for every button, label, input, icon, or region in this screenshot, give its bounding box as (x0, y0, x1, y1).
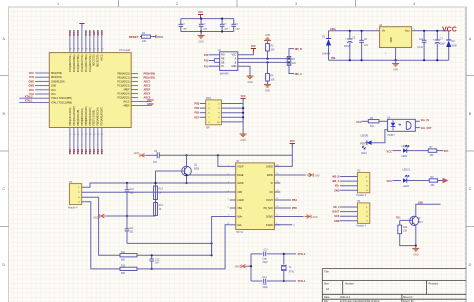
wire Q1 to U5 BASE (187, 174, 230, 176)
svg-text:ADC7(TDI): ADC7(TDI) (93, 54, 96, 66)
svg-text:XTAL1: XTAL1 (25, 100, 33, 103)
svg-text:GND: GND (265, 91, 270, 93)
SW1 left wires and labels (200, 103, 206, 105)
svg-text:25: 25 (81, 49, 83, 51)
svg-text:A: A (3, 37, 6, 41)
svg-text:P20: P20 (360, 144, 365, 146)
header P4 (358, 203, 370, 224)
capacitor C3 (221, 19, 223, 25)
IC U5 pins and labels (230, 165, 236, 167)
svg-text:PD3(INT1): PD3(INT1) (51, 77, 62, 79)
wire (365, 142, 367, 144)
svg-text:SCK: SCK (334, 215, 339, 218)
svg-text:GND: GND (393, 69, 399, 72)
svg-text:GND: GND (28, 85, 34, 88)
svg-text:XTAL1: XTAL1 (298, 280, 306, 283)
svg-text:GND: GND (334, 189, 340, 192)
svg-text:B: B (3, 112, 6, 116)
svg-text:8550: 8550 (194, 169, 200, 171)
svg-text:AREF: AREF (123, 105, 130, 108)
svg-text:VIN-: VIN- (331, 56, 336, 60)
header P1 (69, 184, 81, 205)
svg-text:XO: XO (269, 192, 273, 194)
svg-text:LED1: LED1 (361, 153, 367, 155)
MCU bottom pins (69, 128, 71, 155)
svg-text:PC3(ADC3/TMS): PC3(ADC3/TMS) (77, 54, 80, 72)
capacitor C5 (349, 31, 351, 39)
svg-text:INA-: INA- (237, 224, 242, 227)
svg-text:GND: GND (315, 176, 320, 178)
svg-text:DE: DE (221, 62, 225, 64)
svg-text:13: 13 (85, 134, 87, 136)
net label 485_A (289, 62, 294, 73)
svg-text:PB3(MOSI/OC2): PB3(MOSI/OC2) (82, 108, 84, 125)
svg-text:DOUT: DOUT (266, 200, 273, 202)
svg-text:AREF: AREF (147, 103, 154, 106)
LED D5 (403, 178, 407, 182)
VCC port (155, 35, 157, 38)
svg-text:ISP: ISP (206, 127, 210, 129)
svg-text:PC4: PC4 (72, 30, 76, 36)
svg-text:0.1uF: 0.1uF (417, 47, 423, 49)
svg-text:PC0: PC0 (88, 30, 92, 36)
svg-text:LED(G): LED(G) (402, 146, 410, 148)
SW1 right wires (221, 103, 243, 105)
svg-text:VCC: VCC (231, 55, 236, 57)
svg-text:VCC: VCC (442, 27, 457, 34)
wire (407, 180, 430, 182)
svg-text:PB4(MISO/PCINT): PB4(MISO/PCINT) (86, 106, 88, 126)
U4 cathode wire (372, 130, 388, 143)
resistor R2 pullup (267, 41, 269, 44)
svg-text:P30: P30 (204, 55, 209, 57)
svg-text:AREF: AREF (123, 89, 130, 92)
junction dots Q1 (185, 174, 187, 176)
wire P1 pin1 (82, 183, 230, 187)
svg-text:PD_SCK: PD_SCK (264, 208, 274, 210)
svg-text:VAL_IN: VAL_IN (421, 119, 430, 122)
net label PB4 (274, 199, 291, 201)
svg-text:PC5(ADC5/SCL): PC5(ADC5/SCL) (69, 54, 72, 71)
wire (393, 150, 402, 152)
svg-text:RO: RO (221, 55, 225, 57)
svg-text:C: C (469, 187, 472, 191)
svg-text:PB2: PB2 (76, 148, 80, 154)
svg-text:16: 16 (97, 134, 99, 136)
svg-text:PB2(SS/OC1B): PB2(SS/OC1B) (78, 109, 80, 125)
svg-text:VCC: VCC (29, 72, 34, 75)
svg-text:PB0(ADC0): PB0(ADC0) (118, 73, 130, 76)
svg-text:PD6(AIN0/OC0A): PD6(AIN0/OC0A) (97, 107, 100, 125)
junction dots pin1 line (126, 182, 128, 184)
svg-text:GND: GND (198, 41, 204, 44)
junction dot (126, 215, 128, 217)
svg-text:PC1(ADC1/SDA): PC1(ADC1/SDA) (85, 54, 88, 72)
wire C11 to riser (127, 243, 212, 255)
junction dots cap bus (200, 18, 202, 20)
svg-text:C: C (2, 187, 5, 191)
svg-text:RST: RST (194, 117, 199, 119)
wire collector net (416, 204, 441, 216)
svg-text:CAP: CAP (224, 28, 229, 31)
optocoupler U4 (388, 119, 416, 131)
svg-text:Sheet of: Sheet of (403, 296, 413, 299)
svg-text:PD5: PD5 (92, 148, 96, 154)
U2 VCC pin (238, 49, 254, 55)
SW1 right bus (242, 102, 244, 134)
capacitor C8 (423, 31, 425, 41)
svg-text:PB5: PB5 (292, 207, 297, 210)
svg-text:GND: GND (51, 86, 56, 88)
capacitor C10 (126, 183, 128, 190)
wire (362, 120, 369, 122)
wire crystal left bus (250, 254, 252, 281)
svg-text:PC0(ADC0/SCL): PC0(ADC0/SCL) (89, 54, 92, 71)
svg-text:17: 17 (101, 134, 103, 136)
svg-text:VCC: VCC (356, 120, 362, 124)
svg-text:DI: DI (221, 66, 224, 68)
svg-text:9: 9 (70, 134, 71, 136)
wire P1 pin2 (82, 191, 230, 193)
VCC above SW1 bus (241, 97, 246, 99)
svg-text:10K: 10K (271, 80, 276, 82)
header P3 (358, 172, 370, 192)
capacitor C11 (126, 216, 128, 229)
svg-text:AD6: AD6 (96, 30, 100, 36)
capacitor C9 (156, 152, 158, 158)
svg-text:PC1: PC1 (84, 30, 88, 36)
svg-text:VCC: VCC (198, 11, 203, 14)
svg-text:ADC2: ADC2 (144, 81, 151, 84)
port arrow (438, 180, 443, 182)
svg-text:P32: P32 (204, 61, 209, 63)
svg-text:RE: RE (221, 59, 225, 61)
diode D1 (328, 31, 330, 39)
wire (407, 150, 428, 152)
svg-text:PB5: PB5 (88, 148, 92, 154)
title block (322, 269, 466, 302)
U5 right pin stubs (274, 165, 280, 167)
U5 pin8 wire (274, 224, 292, 226)
capacitor C4 (233, 19, 235, 25)
svg-text:VAL_OUT: VAL_OUT (421, 127, 433, 130)
wire (393, 180, 402, 182)
junction dot (250, 265, 252, 267)
resistor R9 (429, 179, 437, 182)
svg-text:PB0(AD0): PB0(AD0) (144, 73, 156, 76)
MCU top pins (69, 30, 71, 53)
resistor R3 terminator (287, 57, 291, 66)
svg-text:PC5: PC5 (68, 30, 72, 36)
U2 pin P30 (209, 54, 220, 56)
net label PC1 (437, 150, 443, 152)
svg-text:GND: GND (235, 265, 241, 268)
ground below Q2 (415, 246, 417, 249)
svg-text:RATE: RATE (267, 174, 273, 177)
svg-text:14: 14 (89, 134, 91, 136)
U5 DGND to ground (274, 216, 303, 218)
svg-text:PC2(ADC2): PC2(ADC2) (117, 81, 129, 84)
svg-text:1K: 1K (159, 193, 162, 195)
svg-text:VFB: VFB (237, 192, 242, 194)
wire bottom bus (181, 31, 234, 33)
svg-text:26: 26 (77, 49, 79, 51)
svg-text:PB4: PB4 (292, 199, 297, 202)
crystal Y1 (283, 254, 285, 264)
junction dots PSU (349, 30, 351, 32)
svg-text:PC4(ADC4/SDA): PC4(ADC4/SDA) (73, 54, 76, 72)
svg-text:Header 4: Header 4 (357, 194, 367, 197)
wire PSU top rail (329, 30, 380, 32)
resistor R13 (154, 186, 158, 200)
LED D4 (403, 148, 407, 152)
svg-text:D: D (469, 263, 472, 267)
resistor R7 (428, 149, 437, 152)
svg-text:PB1(AD1): PB1(AD1) (144, 77, 156, 80)
svg-text:C10: C10 (130, 189, 135, 191)
net label PB5 (274, 207, 291, 209)
svg-text:MAX485: MAX485 (220, 73, 230, 76)
svg-text:PB5: PB5 (195, 113, 200, 115)
svg-text:3: 3 (295, 2, 297, 6)
svg-text:Size: Size (324, 282, 329, 285)
LED D3 (367, 140, 372, 145)
svg-text:TK1: TK1 (396, 218, 401, 220)
wire (140, 36, 142, 38)
resistor R10 (399, 220, 401, 225)
svg-text:1K: 1K (159, 209, 162, 211)
svg-text:C12: C12 (155, 259, 160, 261)
wire Q2 emitter (415, 225, 417, 245)
svg-text:DOUT: DOUT (332, 211, 340, 214)
svg-text:PC3(ADC3): PC3(ADC3) (117, 85, 129, 88)
svg-text:11: 11 (77, 134, 79, 136)
header SW1 (206, 100, 222, 125)
svg-text:LED(Y): LED(Y) (403, 169, 411, 171)
svg-text:DGND: DGND (266, 225, 273, 227)
svg-text:PB3: PB3 (80, 148, 84, 154)
svg-text:CAP: CAP (203, 28, 208, 31)
frame zone ticks (0, 0, 474, 227)
net label VAL_IN (415, 120, 420, 122)
svg-text:21: 21 (97, 49, 99, 51)
svg-text:ADC6(TDO): ADC6(TDO) (97, 54, 100, 67)
capacitor C12 (151, 255, 153, 259)
svg-text:485_B: 485_B (295, 48, 303, 51)
svg-text:GND: GND (334, 220, 340, 223)
svg-text:AVCC: AVCC (147, 99, 154, 102)
svg-text:P10: P10 (30, 76, 35, 79)
svg-text:ADC4: ADC4 (144, 93, 151, 96)
wire P1 pin3 (82, 197, 120, 255)
svg-text:ATmega8: ATmega8 (119, 48, 131, 52)
wire B line (238, 61, 289, 63)
svg-text:22: 22 (93, 49, 95, 51)
resistor R12 (120, 267, 137, 270)
svg-text:LED(R): LED(R) (361, 136, 369, 138)
svg-text:AVDD: AVDD (237, 182, 244, 185)
svg-text:R12: R12 (121, 265, 126, 267)
svg-text:Cap: Cap (263, 284, 268, 286)
svg-text:XTAL: XTAL (289, 270, 295, 273)
svg-text:PB1: PB1 (72, 148, 76, 154)
svg-text:PC3: PC3 (76, 30, 80, 36)
svg-text:VCC: VCC (29, 89, 34, 92)
VCC symbol above U5 (290, 143, 295, 145)
capacitor C2 (200, 19, 202, 25)
svg-text:Cap: Cap (263, 259, 268, 261)
U5 RATE to ground (274, 174, 305, 176)
svg-text:PB4: PB4 (195, 107, 200, 110)
svg-text:LED3: LED3 (403, 186, 409, 188)
MCU left pins (35, 72, 49, 74)
svg-text:VCC: VCC (251, 45, 256, 48)
svg-text:AVCC: AVCC (123, 101, 130, 104)
P4 wires and labels (340, 206, 358, 208)
svg-text:VD+: VD+ (335, 185, 340, 188)
svg-text:Revision: Revision (429, 282, 439, 285)
svg-text:PB3: PB3 (195, 104, 200, 106)
wire A line (238, 58, 289, 60)
svg-text:VCC: VCC (290, 140, 295, 143)
svg-text:VCC: VCC (157, 35, 164, 39)
svg-text:PB0: PB0 (68, 148, 72, 154)
svg-text:22pF: 22pF (263, 262, 269, 264)
wire divider (155, 171, 157, 216)
svg-text:AVCC: AVCC (101, 54, 104, 61)
capacitor C6 (361, 31, 363, 41)
svg-text:BASE: BASE (237, 174, 244, 177)
svg-text:VBG: VBG (237, 208, 242, 210)
junction dots rail (185, 154, 187, 156)
svg-text:4148: 4148 (452, 46, 458, 48)
svg-text:GND: GND (391, 37, 393, 42)
svg-text:10K: 10K (271, 50, 276, 52)
svg-text:D: D (2, 263, 5, 267)
svg-text:R13: R13 (159, 189, 164, 191)
transistor Q2 (410, 216, 419, 225)
svg-text:28: 28 (69, 49, 71, 51)
svg-text:VCC: VCC (100, 30, 104, 36)
svg-text:485_B: 485_B (332, 176, 340, 179)
svg-text:PB1(ADC1): PB1(ADC1) (118, 77, 130, 80)
svg-text:Title: Title (324, 270, 329, 274)
U2 GND pin (238, 66, 250, 76)
VCC power symbol (198, 14, 203, 16)
svg-text:DGND: DGND (266, 217, 273, 219)
wire U5 VSUP (218, 155, 230, 166)
svg-text:PB0(ICP1/CLKO): PB0(ICP1/CLKO) (70, 107, 72, 125)
svg-text:LED2: LED2 (402, 156, 408, 158)
junction dot Q2 (415, 245, 417, 247)
wire riser to INA+ (212, 217, 230, 256)
wire top bus (181, 18, 234, 20)
svg-text:CAP: CAP (182, 28, 187, 31)
svg-text:GND: GND (93, 216, 99, 219)
U2 RE DE tie (214, 58, 219, 60)
svg-text:27: 27 (73, 49, 75, 51)
svg-text:GND: GND (247, 81, 253, 84)
VCC symbol top pin (79, 23, 84, 25)
svg-text:PD2(INT0): PD2(INT0) (51, 73, 62, 75)
svg-text:Date:: Date: (324, 296, 330, 299)
resistor R4 pulldown (267, 62, 269, 73)
ground below caps (200, 32, 202, 36)
svg-text:10uF: 10uF (440, 44, 446, 46)
P3 wires and labels (340, 176, 358, 178)
svg-text:C13: C13 (264, 249, 269, 251)
capacitor C7 (436, 31, 438, 40)
ground below SW1 bus (240, 133, 247, 135)
MCU right pins (131, 73, 138, 75)
svg-text:15: 15 (93, 134, 95, 136)
svg-text:20: 20 (101, 49, 103, 51)
ground below R4 (264, 84, 271, 86)
svg-text:VCC: VCC (387, 149, 393, 153)
svg-text:GND/RLSDN: GND/RLSDN (51, 81, 65, 83)
wire (151, 36, 157, 38)
svg-text:PC5(ADC5): PC5(ADC5) (117, 97, 129, 100)
junction dots AB (266, 58, 268, 60)
svg-text:B: B (469, 112, 472, 116)
svg-text:10: 10 (73, 134, 75, 136)
regulator U3 body (380, 27, 412, 48)
svg-text:GND: GND (134, 153, 139, 155)
resistor R1 (142, 35, 151, 38)
svg-text:Header 4: Header 4 (68, 206, 78, 209)
svg-text:PC1: PC1 (444, 150, 449, 153)
svg-text:VCC: VCC (241, 95, 246, 98)
svg-text:Header 4: Header 4 (357, 225, 367, 228)
resistor R11 (120, 254, 137, 257)
svg-text:ADC3: ADC3 (144, 85, 151, 88)
svg-text:AREF: AREF (144, 89, 151, 92)
U2 pin P31 (209, 65, 220, 67)
svg-text:R10: R10 (403, 227, 408, 229)
svg-text:C14: C14 (263, 277, 268, 279)
wire Q2 base (400, 219, 413, 221)
svg-text:10K: 10K (403, 231, 408, 233)
IC U2 body (220, 52, 238, 71)
svg-text:GND: GND (413, 254, 419, 257)
svg-text:GND: GND (28, 80, 34, 83)
svg-text:220uF: 220uF (344, 46, 351, 48)
svg-text:GND: GND (240, 139, 246, 142)
svg-text:GND: GND (265, 35, 270, 37)
wire R11 out (137, 254, 212, 256)
svg-text:SW1: SW1 (206, 98, 212, 100)
svg-text:PC4(ADC4): PC4(ADC4) (117, 93, 129, 96)
svg-text:GND: GND (312, 217, 317, 219)
svg-text:PC2(ADC2/TCK): PC2(ADC2/TCK) (81, 54, 84, 72)
svg-text:10K: 10K (142, 40, 147, 43)
capacitor C13 (251, 253, 263, 255)
svg-text:23: 23 (89, 49, 91, 51)
svg-text:SD_2: SD_2 (333, 206, 340, 209)
svg-text:DVDD: DVDD (266, 166, 273, 168)
resistor R14 (154, 203, 158, 216)
svg-text:PB1(OC1A/PCINT): PB1(OC1A/PCINT) (73, 106, 76, 126)
svg-text:XTAL2: XTAL2 (25, 96, 33, 99)
diode D2 (448, 31, 450, 40)
junction dot divider (154, 182, 156, 184)
svg-text:A: A (469, 37, 472, 41)
svg-text:9013: 9013 (418, 222, 424, 224)
svg-text:485_A: 485_A (332, 180, 340, 183)
resistor R6 (368, 120, 379, 123)
U4 input wire (379, 120, 388, 122)
svg-text:PD6: PD6 (96, 148, 100, 154)
